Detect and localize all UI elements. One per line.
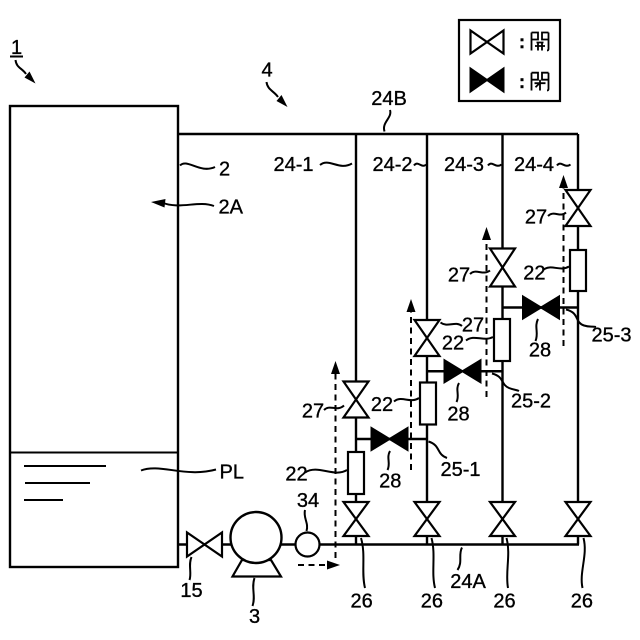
label 25-3 leader xyxy=(566,310,596,328)
svg-text:25-2: 25-2 xyxy=(511,391,551,413)
liquid level line PL xyxy=(10,452,178,454)
valve 26 branch2 xyxy=(415,502,440,536)
label 26 branch4 leader xyxy=(582,538,585,588)
svg-text:24A: 24A xyxy=(450,571,486,593)
label 26 branch2 leader xyxy=(432,538,436,588)
svg-text:26: 26 xyxy=(350,591,372,613)
component 34 xyxy=(296,533,320,557)
wire branch 24-4 vertical xyxy=(577,134,579,545)
wire connector 25-3 horizontal xyxy=(503,306,579,308)
wire branch 24-1 vertical xyxy=(355,134,357,545)
label 1 arrow xyxy=(16,60,36,84)
valve 26 branch3 xyxy=(490,502,515,536)
dashed flow arrow branch1 xyxy=(331,361,340,558)
flow meter 22 branch3 xyxy=(494,319,510,361)
svg-text:24-1: 24-1 xyxy=(273,154,313,176)
label 27 branch2 leader xyxy=(441,323,463,327)
valve 27 branch3 xyxy=(490,249,515,287)
label 27 branch4 leader xyxy=(548,213,566,217)
label 26 branch1 leader xyxy=(361,538,365,588)
liquid line a xyxy=(24,465,106,467)
wire connector 25-2 horizontal xyxy=(427,370,503,372)
svg-text:34: 34 xyxy=(297,490,319,512)
label 2 leader xyxy=(180,163,215,168)
legend kanji closed (閉) xyxy=(532,73,549,91)
dashed flow arrow branch3 xyxy=(482,227,491,397)
legend colon open xyxy=(521,38,524,48)
label 25-1 leader xyxy=(429,442,448,459)
legend kanji open (開) xyxy=(532,33,549,51)
flow meter 22 branch2 xyxy=(420,383,436,425)
label 22 branch2 leader xyxy=(394,398,419,402)
label 24-2 leader xyxy=(414,164,426,166)
legend colon closed xyxy=(521,78,524,88)
wire branch 24-2 vertical xyxy=(426,134,428,545)
svg-text:24-2: 24-2 xyxy=(372,154,412,176)
label 1 underline xyxy=(10,56,23,58)
valve 28 closed between branch1-2 xyxy=(372,428,408,450)
label 3 leader xyxy=(253,578,255,606)
label 2A leader arrow xyxy=(151,199,214,208)
label 22 branch4 leader xyxy=(543,267,569,271)
label 4 arrow xyxy=(267,82,288,107)
label 28 valve2 leader xyxy=(457,383,460,402)
svg-text:27: 27 xyxy=(448,265,470,287)
valve 26 branch1 xyxy=(344,502,369,536)
svg-text:3: 3 xyxy=(249,606,260,628)
label 24A leader xyxy=(458,548,463,571)
svg-text:PL: PL xyxy=(220,462,244,484)
svg-text:25-3: 25-3 xyxy=(591,325,631,347)
label 26 branch3 leader xyxy=(507,538,509,588)
valve 27 branch2 xyxy=(415,320,440,356)
valve 26 branch4 xyxy=(566,502,591,536)
svg-text:22: 22 xyxy=(523,263,545,285)
label 34 leader xyxy=(305,510,308,531)
wire branch 24-3 vertical xyxy=(501,134,503,545)
valve 27 branch4 xyxy=(566,190,591,226)
label 28 valve3 leader xyxy=(536,319,539,341)
valve 15 xyxy=(187,533,222,557)
pipe 24A bottom manifold xyxy=(178,543,579,545)
valve 28 closed between branch2-3 xyxy=(445,360,481,382)
svg-text:4: 4 xyxy=(261,60,272,82)
flow meter 22 branch4 xyxy=(570,250,586,291)
label 25-2 leader xyxy=(492,374,519,392)
svg-text:22: 22 xyxy=(442,333,464,355)
dashed flow arrow branch4 xyxy=(559,175,568,346)
label 24-1 leader xyxy=(320,163,352,166)
svg-text:27: 27 xyxy=(302,401,324,423)
svg-text:26: 26 xyxy=(493,591,515,613)
label 22 branch1 leader xyxy=(305,470,347,473)
liquid line c xyxy=(24,499,63,501)
svg-text:15: 15 xyxy=(180,580,202,602)
svg-text:2A: 2A xyxy=(219,197,244,219)
svg-text:28: 28 xyxy=(447,404,469,426)
tank 2 xyxy=(10,106,178,567)
legend open valve symbol xyxy=(471,31,504,54)
label 24B leader xyxy=(384,110,390,132)
svg-text:25-1: 25-1 xyxy=(440,459,480,481)
svg-text:2: 2 xyxy=(219,159,230,181)
svg-text:24-3: 24-3 xyxy=(444,154,484,176)
liquid line b xyxy=(25,482,90,484)
svg-text:26: 26 xyxy=(421,591,443,613)
valve 27 branch1 xyxy=(344,382,369,418)
svg-text:24B: 24B xyxy=(371,88,407,110)
dashed flow arrow branch2 xyxy=(407,299,416,470)
pump 3 base xyxy=(233,560,282,577)
svg-text:28: 28 xyxy=(379,471,401,493)
label PL leader xyxy=(141,468,216,472)
svg-text:28: 28 xyxy=(529,340,551,362)
flow meter 22 branch1 xyxy=(348,452,364,494)
dashed pump outlet flow arrow xyxy=(298,561,340,570)
svg-text:22: 22 xyxy=(285,464,307,486)
svg-text:27: 27 xyxy=(462,315,484,337)
valve 28 closed between branch3-4 xyxy=(523,297,559,319)
svg-text:27: 27 xyxy=(525,207,547,229)
svg-text:24-4: 24-4 xyxy=(514,154,554,176)
svg-text:22: 22 xyxy=(371,394,393,416)
legend box xyxy=(459,20,560,101)
label 27 branch3 leader xyxy=(470,271,490,275)
label 24-4 leader xyxy=(557,164,571,166)
wire connector 25-1 horizontal xyxy=(356,438,427,440)
label 15 leader xyxy=(190,557,192,580)
pipe 24B top manifold xyxy=(177,133,578,135)
label 24-3 leader xyxy=(488,164,502,166)
label 22 branch3 leader xyxy=(466,337,493,341)
pump 3 xyxy=(231,512,282,563)
svg-text:26: 26 xyxy=(571,591,593,613)
legend closed valve symbol xyxy=(471,69,504,92)
label 27 branch1 leader xyxy=(324,406,344,411)
label 28 valve1 leader xyxy=(388,451,391,470)
